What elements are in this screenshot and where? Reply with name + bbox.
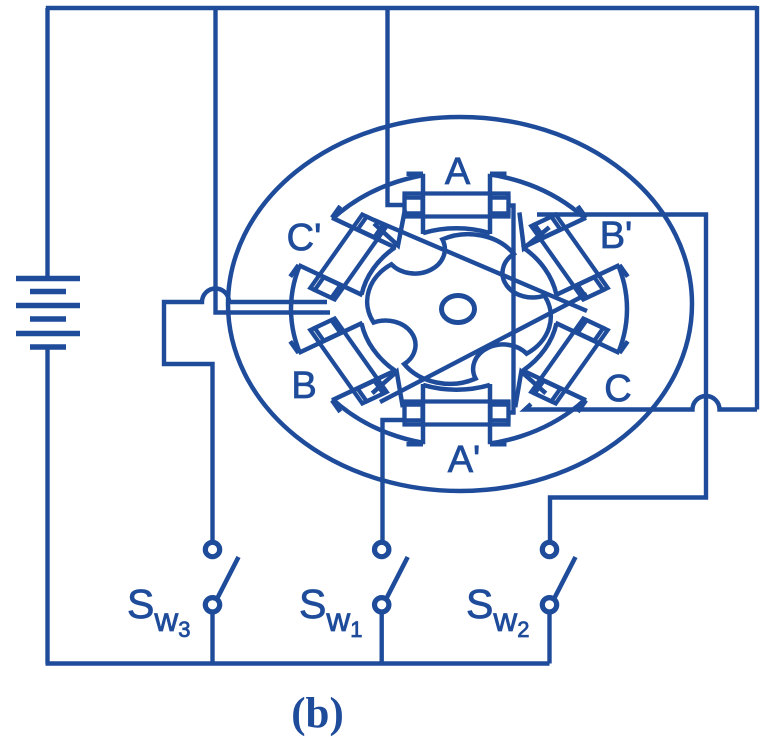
wire top rail to coil A — [388, 8, 407, 205]
coil A' — [405, 402, 509, 425]
right rail — [755, 6, 759, 410]
stator wedge A'-B — [372, 372, 403, 408]
stator wedge A-B' — [519, 212, 549, 248]
svg-text:A': A' — [448, 439, 481, 481]
svg-text:(b): (b) — [291, 690, 344, 737]
switch Sw3 — [205, 542, 238, 663]
coil C — [531, 319, 607, 404]
coil B — [310, 319, 386, 404]
battery — [16, 279, 80, 348]
stator outer ellipse — [228, 117, 692, 491]
switch Sw2 — [542, 542, 575, 663]
wire top rail to coil B — [216, 8, 331, 313]
svg-text:B: B — [291, 365, 316, 407]
stator pole C — [514, 311, 635, 415]
stator pole B — [283, 311, 404, 415]
rotor center O — [442, 296, 475, 323]
svg-text:C': C' — [287, 217, 322, 259]
stator pole A — [407, 167, 507, 234]
wire coil B to coil B' — [380, 294, 587, 402]
svg-text:A: A — [445, 151, 471, 193]
rotor — [367, 234, 551, 384]
stator wedge C-A' — [515, 372, 546, 408]
wire coil A' to switch Sw1 — [383, 420, 407, 542]
bottom rail — [46, 661, 550, 666]
svg-text:B': B' — [600, 215, 633, 257]
top rail — [46, 6, 757, 10]
stator wedge C'-A — [374, 210, 405, 245]
coil C' — [310, 215, 386, 300]
wire coil B' to switch Sw2 — [537, 215, 706, 542]
battery bottom lead — [45, 347, 49, 664]
wire coil C' to coil C — [374, 220, 587, 311]
stator pole C' — [283, 203, 404, 307]
svg-text:C: C — [604, 368, 631, 410]
stator inner ring — [291, 172, 627, 446]
coil A — [405, 194, 509, 217]
coil B' — [531, 215, 607, 300]
battery top lead — [45, 8, 49, 276]
stator pole B' — [514, 203, 635, 307]
wire coil C' to switch Sw3 (hop) — [164, 289, 327, 542]
wire coil A to coil A' — [509, 206, 514, 413]
switch Sw1 — [375, 542, 408, 663]
wire coil C to right rail (hop) — [525, 396, 757, 410]
stator pole A' — [407, 384, 507, 451]
